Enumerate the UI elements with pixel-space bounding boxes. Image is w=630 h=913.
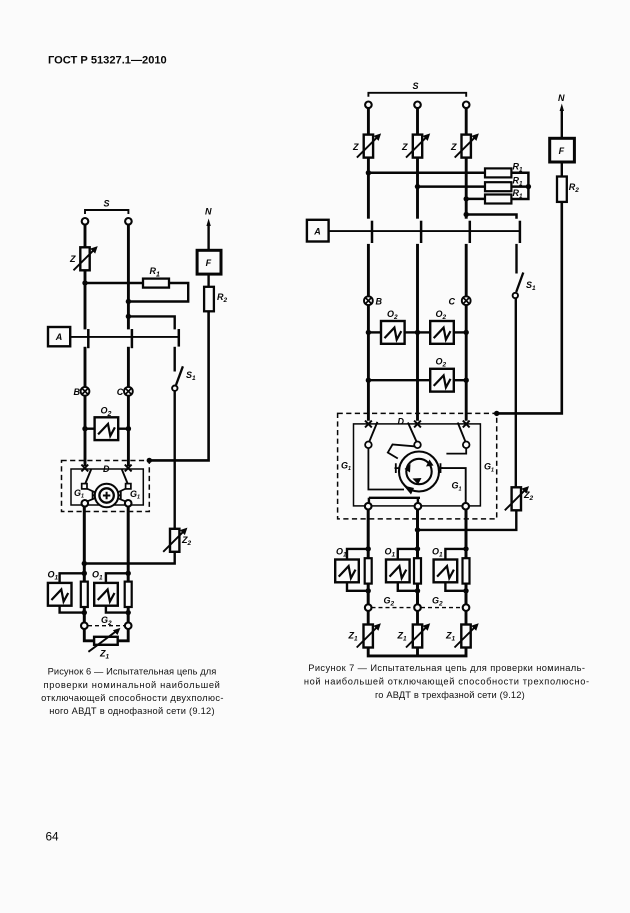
switch S bracket xyxy=(85,210,128,214)
svg-text:Z: Z xyxy=(450,142,457,152)
arrow N fig.7 xyxy=(560,104,564,112)
node R1 return on N xyxy=(126,299,131,304)
wire phase B below D xyxy=(416,509,419,605)
wire O1a bottom link fig.7 xyxy=(347,583,368,591)
grid box G1 xyxy=(71,469,143,505)
wire pole1 to lamp B xyxy=(84,347,87,387)
pivot circle pole1 fig.7 xyxy=(365,442,372,449)
surge arrester O2b xyxy=(430,321,454,344)
lamp B xyxy=(81,387,90,396)
terminal pole3 bottom fig.7 xyxy=(462,503,469,510)
svg-text:F: F xyxy=(206,258,212,268)
wire R1 common bus xyxy=(511,173,528,199)
surge arrester O1a xyxy=(48,583,72,606)
wire phase A below D xyxy=(367,509,370,605)
brush right xyxy=(118,492,122,500)
node R1a xyxy=(366,170,371,175)
link circle1 to drum xyxy=(87,498,96,502)
pivot circle pole2 fig.7 xyxy=(414,442,421,449)
wire phase A to Za xyxy=(367,108,370,135)
svg-text:N: N xyxy=(205,207,212,217)
wire drum bottom bus xyxy=(369,498,420,503)
wire pole2 to lamp C xyxy=(127,347,130,387)
node O1a bottom xyxy=(82,610,87,615)
wire drum right to pole3 bottom xyxy=(441,468,466,503)
switch S1 pivot xyxy=(172,386,177,391)
wire O1b top link xyxy=(106,573,128,582)
brush left xyxy=(92,492,96,500)
wire O1b bottom link fig.7 xyxy=(398,583,418,591)
wire N arrow to F fig.7 xyxy=(561,109,563,138)
node O1b top fig.7 xyxy=(415,546,420,551)
wire phase B to Zb xyxy=(416,108,419,135)
lamp B fig.7 xyxy=(364,296,373,305)
trip bar from A fig.7 xyxy=(329,230,520,232)
svg-text:N: N xyxy=(558,93,565,103)
wire pole3 to S1 xyxy=(173,347,175,372)
wire pole4 to S1 fig.7 xyxy=(515,244,517,274)
fixed contact X pole3 fig.7 xyxy=(463,421,470,428)
node O1b bottom fig.7 xyxy=(415,588,420,593)
wire pole3 to lamp C fig.7 xyxy=(465,244,468,297)
wire G2a to Z1a xyxy=(367,611,370,625)
pole 1 tick fig.7 xyxy=(371,221,374,243)
node R1 star point xyxy=(526,184,531,189)
wire lamp C to D box xyxy=(127,396,130,466)
wire right to Z1 xyxy=(118,629,129,641)
svg-text:Z: Z xyxy=(401,142,408,152)
fixed contact X pole2 fig.7 xyxy=(414,421,421,428)
wire R2 down to D fig.7 xyxy=(497,202,562,414)
pivot circle pole3 fig.7 xyxy=(463,442,470,449)
resistor R2 fig.7 xyxy=(557,177,567,202)
wire O2c right link xyxy=(454,379,466,381)
svg-text:64: 64 xyxy=(46,830,60,844)
svg-text:B: B xyxy=(74,387,81,397)
drum bottom-left pawl arrow xyxy=(404,486,415,495)
wire to R1b xyxy=(418,185,486,188)
brush left fig.7 xyxy=(395,463,400,473)
svg-text:A: A xyxy=(313,226,321,236)
grid box fig.7 xyxy=(354,424,481,506)
fixed contact X pole1 fig.7 xyxy=(365,421,372,428)
wire lamp B to D fig.7 xyxy=(367,305,370,421)
svg-text:C: C xyxy=(117,387,124,397)
drum arrowhead top-right xyxy=(426,460,434,467)
wire G2b to Z1b xyxy=(416,611,419,625)
switch S bracket fig.7 xyxy=(368,93,466,97)
wire L terminal to Z xyxy=(84,224,87,247)
svg-text:D: D xyxy=(398,416,405,426)
wire pole2 bottom down xyxy=(127,506,130,623)
impedance Z xyxy=(74,246,98,270)
wire F to R2 xyxy=(207,274,209,287)
wire bottom bus fig.7 xyxy=(368,648,466,656)
wire O1b top link fig.7 xyxy=(398,549,418,559)
terminal phase C xyxy=(463,102,470,109)
caption figure 7 xyxy=(304,663,590,700)
pole 3 contact tick xyxy=(178,329,181,347)
caption figure 6 xyxy=(41,667,224,717)
pole 2 tick fig.7 xyxy=(420,221,423,243)
svg-text:Z: Z xyxy=(69,254,76,264)
svg-text:C: C xyxy=(449,296,456,306)
drum arrowhead left xyxy=(405,464,411,473)
link square2 to drum xyxy=(116,489,126,494)
terminal G2 right xyxy=(125,622,132,629)
wire Z2 return to phase B xyxy=(418,510,517,530)
switch S1 blade fig.7 xyxy=(516,273,523,293)
surge arrester O2a xyxy=(381,321,405,344)
node O2c right xyxy=(464,378,469,383)
drum cross xyxy=(103,492,110,499)
node O2 mid xyxy=(415,330,420,335)
wire phase C below D xyxy=(465,509,468,605)
surge arrester O1b fig.7 xyxy=(386,560,410,583)
terminal pole2 bottom xyxy=(125,500,132,507)
wire O1c top link fig.7 xyxy=(445,549,466,559)
wire O2 right link xyxy=(118,428,128,430)
impedance Zb xyxy=(406,133,430,157)
wire node to R1 xyxy=(85,282,143,284)
terminal G2b fig.7 xyxy=(414,604,421,611)
fixed contact X pole 2 xyxy=(125,465,132,472)
arrow N xyxy=(206,219,210,227)
device A (АВДТ) box xyxy=(48,327,70,346)
wire Z2 return to L xyxy=(84,552,174,564)
resistor R2 xyxy=(204,287,214,312)
svg-text:ной наибольшей отключающей спо: ной наибольшей отключающей способности т… xyxy=(304,677,590,687)
device A (АВДТ) box fig.7 xyxy=(307,220,329,242)
fuse F box fig.7 xyxy=(550,138,575,162)
terminal pole1 bottom fig.7 xyxy=(365,503,372,510)
resistor R1b xyxy=(485,182,511,191)
wire pole1 bottom down xyxy=(83,506,86,623)
impedance Zc xyxy=(455,133,479,157)
node N branch xyxy=(126,314,131,319)
pivot square pole 2 xyxy=(126,484,131,489)
impedance Za xyxy=(357,133,381,157)
wire O2c left link xyxy=(368,379,430,381)
terminal pole1 bottom xyxy=(82,500,89,507)
drum arrowhead bottom xyxy=(413,478,422,485)
rotating drum outer xyxy=(95,484,119,508)
node O2b right xyxy=(464,330,469,335)
impedance Z2 fig.7 xyxy=(505,486,529,510)
node O2 left xyxy=(82,426,87,431)
wire Z1b to bus fig.7 xyxy=(416,648,419,656)
pole 1 contact tick xyxy=(87,329,90,348)
node neutral feed xyxy=(464,212,469,217)
node O1b bottom xyxy=(126,610,131,615)
moving blade pole 1 xyxy=(84,469,91,486)
moving blade pole 2 xyxy=(122,469,129,486)
wire lamp C to D fig.7 xyxy=(465,305,468,421)
rotating drum inner xyxy=(99,488,113,502)
node O1a top fig.7 xyxy=(366,546,371,551)
svg-text:проверки номинальной наибольше: проверки номинальной наибольшей xyxy=(44,680,221,690)
wire pole1 to lamp B fig.7 xyxy=(367,244,370,297)
trip bar from A xyxy=(70,336,179,338)
svg-text:го АВДТ в трехфазной сети (9.1: го АВДТ в трехфазной сети (9.12) xyxy=(375,690,525,700)
wire G2c to Z1c xyxy=(465,611,468,625)
blade pole3 fig.7 xyxy=(458,423,466,442)
wire phase C to Zc xyxy=(465,108,468,135)
resistor R1 xyxy=(143,279,169,288)
brush right fig.7 xyxy=(439,463,443,473)
node O1b top xyxy=(126,571,131,576)
wire left to Z1 xyxy=(84,629,94,641)
node Z2 return fig.7 xyxy=(415,527,420,532)
svg-text:Z: Z xyxy=(352,142,359,152)
terminal G2 left xyxy=(81,622,88,629)
wire O2b right link xyxy=(454,331,466,333)
wire O1a top link fig.7 xyxy=(347,549,368,559)
blade pole2 fig.7 xyxy=(408,423,417,442)
pole 2 contact tick xyxy=(131,329,134,348)
impedance Z1 xyxy=(88,628,120,652)
wire N arrow to F xyxy=(207,224,209,250)
node O2 right xyxy=(126,426,131,431)
surge arrester O2c xyxy=(430,369,454,392)
pole 4 tick fig.7 xyxy=(519,221,522,243)
svg-text:A: A xyxy=(55,332,63,342)
terminal G2c fig.7 xyxy=(463,604,470,611)
wire to R1a xyxy=(368,172,485,175)
surge arrester O1a fig.7 xyxy=(335,560,359,583)
node R1b xyxy=(415,184,420,189)
svg-text:F: F xyxy=(559,146,565,156)
test apparatus D dashed box fig.7 xyxy=(338,413,497,519)
resistor on phase B xyxy=(414,558,421,583)
terminal N supply xyxy=(125,218,132,225)
link square1 to drum xyxy=(87,489,97,494)
svg-text:ного АВДТ в однофазной сети (9: ного АВДТ в однофазной сети (9.12) xyxy=(49,706,215,716)
wire pole2 down fig.7 xyxy=(416,244,419,421)
wire O1a bottom link xyxy=(60,607,85,613)
wire neutral feed to pole4 xyxy=(466,215,516,219)
linkage dashed G2ab xyxy=(372,607,415,609)
resistor R1a xyxy=(485,168,511,177)
wire O1a top link xyxy=(60,573,85,582)
wire Za to pole1 xyxy=(367,158,370,219)
linkage dashed G2 xyxy=(88,625,125,627)
wire R2 down to D box xyxy=(149,311,208,460)
resistor G2a on L wire xyxy=(81,582,88,607)
node O1a bottom fig.7 xyxy=(366,588,371,593)
test apparatus D dashed box xyxy=(62,461,150,512)
switch S1 blade xyxy=(176,366,183,385)
node O2c left xyxy=(366,378,371,383)
lamp C xyxy=(124,387,133,396)
fuse F box xyxy=(197,250,221,274)
lamp C fig.7 xyxy=(462,296,471,305)
wire N branch to pole 3 xyxy=(128,316,174,329)
svg-text:S: S xyxy=(104,199,110,209)
resistor R1c xyxy=(485,195,511,204)
wire O2 left link xyxy=(85,428,95,430)
terminal G2a fig.7 xyxy=(365,604,372,611)
wire lamp B to D box xyxy=(84,396,87,466)
node O1c top fig.7 xyxy=(463,546,468,551)
impedance Z1c fig.7 xyxy=(455,623,479,647)
svg-text:B: B xyxy=(376,296,383,306)
impedance Z1a fig.7 xyxy=(357,623,381,647)
linkage dashed G2bc xyxy=(421,607,463,609)
switch S1 pivot fig.7 xyxy=(513,293,518,298)
resistor on phase A xyxy=(365,558,372,583)
wire S1 to Z2 xyxy=(173,391,175,529)
link pole2 to drum xyxy=(388,445,414,459)
blade pole1 fig.7 xyxy=(369,422,377,442)
wire Zb to pole2 xyxy=(416,158,419,219)
fixed contact X pole 1 xyxy=(81,465,88,472)
svg-text:Рисунок 6 — Испытательная цепь: Рисунок 6 — Испытательная цепь для xyxy=(48,667,217,677)
wire O2b left link xyxy=(418,331,431,333)
pole 3 tick fig.7 xyxy=(469,221,472,243)
rotating drum inner fig.7 xyxy=(406,459,431,484)
node O1a top xyxy=(82,571,87,576)
wire F to R2 fig.7 xyxy=(561,162,563,177)
resistor G2b on N wire xyxy=(125,582,132,607)
svg-text:отключающей способности двухпо: отключающей способности двухполюс- xyxy=(41,693,224,703)
rotating drum outer fig.7 xyxy=(399,452,439,492)
node at D box corner fig.7 xyxy=(494,411,499,416)
surge arrester O1c fig.7 xyxy=(434,560,458,583)
wire N terminal down to pole 2 xyxy=(127,224,130,329)
resistor on phase C xyxy=(463,558,470,583)
svg-text:S: S xyxy=(413,81,419,91)
surge arrester O1b xyxy=(94,583,118,606)
wire O2a right link xyxy=(404,331,417,333)
wire O1b bottom link xyxy=(106,607,128,613)
wire L node to pole 1 xyxy=(84,283,87,329)
impedance Z1b fig.7 xyxy=(406,623,430,647)
node L/R1 junction xyxy=(82,280,87,285)
node O1c bottom fig.7 xyxy=(463,588,468,593)
terminal phase A xyxy=(365,102,372,109)
link circle2 to drum xyxy=(116,498,125,502)
node Z2 return xyxy=(82,561,87,566)
wire to R1c xyxy=(466,198,485,201)
terminal phase B xyxy=(414,102,421,109)
impedance Z2 xyxy=(163,528,187,552)
svg-text:ГОСТ Р 51327.1—2010: ГОСТ Р 51327.1—2010 xyxy=(48,55,167,67)
wire O2a left link xyxy=(368,331,381,333)
node R1c xyxy=(464,196,469,201)
pivot square pole 1 xyxy=(82,484,87,489)
surge arrester O2 xyxy=(95,417,119,440)
wire S1 to Z2 fig.7 xyxy=(515,298,517,487)
terminal L supply xyxy=(82,218,89,225)
wire O1c bottom link fig.7 xyxy=(445,583,466,591)
wire Z to node xyxy=(84,270,87,284)
node at D box corner xyxy=(147,458,152,463)
svg-text:Рисунок 7 — Испытательная цепь: Рисунок 7 — Испытательная цепь для прове… xyxy=(308,663,585,673)
node O2a left xyxy=(366,330,371,335)
wire R1 loop to N wire xyxy=(128,283,188,302)
wire Zc to pole3 xyxy=(465,158,468,219)
terminal pole2 bottom fig.7 xyxy=(415,503,422,510)
link pole1 to drum xyxy=(368,448,404,489)
link pole3 to drum xyxy=(446,448,466,454)
